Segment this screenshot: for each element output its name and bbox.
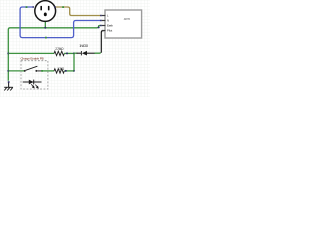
wire L olive	[55, 7, 101, 16]
svg-text:N: N	[107, 19, 109, 23]
wire N blue	[20, 7, 101, 38]
wire bottom branch green mid	[43, 70, 55, 72]
resistor R1 2.74k zigzag	[54, 51, 64, 55]
outlet ground hole	[44, 13, 47, 17]
junction dot earth/stub	[44, 27, 46, 29]
bendpoint dot	[65, 70, 67, 72]
svg-text:2.74kΩ: 2.74kΩ	[55, 47, 64, 51]
enclosure dashed box Charge Enable PB	[21, 61, 48, 89]
switch S1 right terminal	[35, 70, 37, 72]
bendpoint dot earth corner	[98, 26, 100, 28]
bendpoint dot olive wire	[62, 6, 64, 8]
switch S1 lever	[26, 66, 38, 70]
pin stub Pilot	[102, 30, 106, 32]
wire end dot Earth	[100, 25, 102, 27]
svg-text:Pilot: Pilot	[107, 29, 113, 33]
wire top branch green left	[8, 52, 54, 54]
pin stub Earth	[102, 25, 106, 27]
bendpoint dot blue wire	[45, 37, 47, 39]
LED DS1 emission arrow 2	[35, 85, 38, 88]
svg-text:1N4003: 1N4003	[79, 44, 88, 48]
pin stub L	[102, 15, 106, 17]
wire diode to pilot green	[95, 51, 101, 54]
LED DS1 triangle pointing right	[29, 80, 34, 85]
ground wire end dot	[8, 81, 10, 83]
wire bottom branch green right	[64, 70, 74, 72]
wire diode branch green short	[74, 52, 77, 54]
diode D1 triangle pointing left	[82, 51, 87, 56]
outlet slot left	[40, 6, 42, 10]
wire outlet ground stub	[44, 21, 46, 28]
wire end dot N	[100, 20, 102, 22]
wire pilot black vertical	[101, 31, 105, 53]
connector J1772 box	[105, 10, 142, 38]
node junction top branch on ground rail	[7, 52, 9, 54]
svg-text:Earth: Earth	[107, 24, 113, 28]
wire bottom branch green left	[8, 70, 24, 72]
pin stub N	[102, 20, 106, 22]
svg-text:L: L	[107, 14, 109, 18]
node junction bottom branch on ground rail	[7, 70, 9, 72]
svg-text:1.3kΩ: 1.3kΩ	[57, 67, 65, 71]
outlet terminal dot left	[32, 6, 34, 8]
wire Earth green	[8, 26, 101, 81]
bendpoint dot green	[41, 70, 43, 72]
outlet J2 circle	[35, 1, 56, 22]
node A junction	[73, 52, 75, 54]
wire diode branch black right	[87, 52, 95, 54]
node junction bottom	[73, 70, 75, 72]
resistor R2 1.3k zigzag	[54, 69, 64, 73]
outlet slot right	[48, 6, 50, 10]
wire switch to resistor gray	[37, 70, 41, 72]
LED DS1 cathode bar	[33, 80, 35, 85]
svg-text:J1772: J1772	[124, 17, 131, 21]
ground symbol	[4, 82, 13, 91]
outlet terminal dot right	[54, 6, 56, 8]
diode D1 1N4003 cathode bar	[80, 51, 82, 55]
LED DS1 inside button: lead line	[23, 81, 42, 83]
switch S1 left terminal	[24, 70, 26, 72]
wire top branch green right	[64, 52, 74, 54]
wire diode branch black left	[77, 52, 82, 54]
svg-text:Charge Enable PB: Charge Enable PB	[21, 56, 44, 60]
wire end dot L	[100, 15, 102, 17]
bendpoint dot	[66, 52, 68, 54]
wire node A vertical green	[73, 53, 75, 71]
LED DS1 emission arrow 1	[31, 84, 34, 87]
